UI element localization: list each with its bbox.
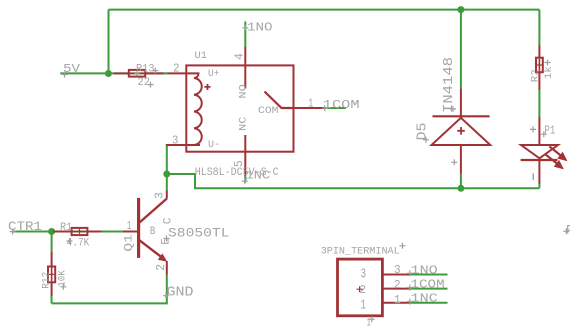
resistor R13 body — [129, 70, 145, 77]
wire top rail — [109, 9, 540, 11]
wire diode bottom green segment — [460, 174, 462, 189]
svg-text:IN4148: IN4148 — [442, 57, 457, 113]
svg-text:1: 1 — [394, 294, 401, 307]
wire R2 top green segment — [538, 10, 540, 46]
svg-text:2: 2 — [155, 264, 168, 271]
4.7K cross — [67, 238, 73, 244]
svg-text:1NO: 1NO — [411, 264, 438, 277]
relay U1 pin 5 NC vertical — [244, 135, 246, 176]
wire R12 top green segment — [51, 232, 53, 253]
node junction coil low side — [163, 171, 170, 178]
P1 cross — [541, 131, 547, 137]
transistor Q1 collector diagonal — [140, 199, 167, 223]
svg-text:2: 2 — [394, 279, 401, 292]
svg-text:1NO: 1NO — [247, 22, 273, 35]
svg-text:3PIN_TERMINAL: 3PIN_TERMINAL — [321, 245, 400, 257]
svg-text:10K: 10K — [57, 270, 69, 287]
transistor Q1 base bar — [137, 198, 140, 258]
svg-text:NC: NC — [238, 117, 250, 131]
diode D5 cathode bar — [433, 115, 490, 117]
resistor R2 pin bottom — [538, 72, 540, 90]
LED P1 cathode bar — [521, 159, 558, 161]
relay U1 coil plus mark — [204, 84, 210, 90]
transistor Q1 emitter pin — [166, 261, 168, 275]
svg-text:4: 4 — [233, 53, 246, 60]
svg-text:1: 1 — [127, 220, 132, 233]
svg-text:22: 22 — [138, 77, 151, 89]
1NO terminal cross — [407, 270, 413, 276]
GND cross — [163, 293, 169, 299]
resistor R12 body — [48, 267, 55, 283]
LED plus marker — [530, 126, 536, 132]
wire pin5 stub 1NC — [244, 176, 246, 183]
diode D5 pin top — [460, 88, 462, 118]
CTR1 cross — [10, 229, 16, 235]
terminal pin 1 — [382, 302, 409, 304]
resistor R13 pin right — [145, 72, 163, 74]
svg-text:GND: GND — [167, 286, 194, 301]
svg-text:1COM: 1COM — [323, 99, 360, 112]
node junction 5V row — [105, 70, 112, 77]
wire collector green segment — [166, 174, 168, 191]
svg-text:S8050TL: S8050TL — [168, 226, 230, 241]
svg-text:U+: U+ — [208, 68, 220, 80]
diode D5 pin bottom — [460, 145, 462, 174]
svg-text:NO: NO — [238, 84, 250, 98]
svg-text:1NC: 1NC — [411, 293, 438, 306]
svg-text:1: 1 — [361, 299, 367, 314]
LED P1 arrow 1 — [550, 147, 568, 162]
resistor R2 pin top — [538, 45, 540, 58]
node 5V origin cross — [62, 72, 68, 78]
svg-text:1: 1 — [308, 97, 313, 110]
relay U1 coil — [186, 73, 201, 145]
node junction CTR1 — [48, 228, 55, 235]
relay U1 pin 1 COM — [282, 107, 325, 109]
wire tiny green gap before relay pin2 — [163, 72, 168, 74]
terminal block box — [338, 259, 383, 316]
wire 5V row — [60, 72, 168, 74]
relay U1 box — [186, 65, 293, 151]
E origin cross — [164, 236, 170, 242]
resistor R1 body — [72, 228, 88, 235]
wire R2 to LED green segment — [538, 90, 540, 117]
1NC cross — [242, 178, 248, 184]
svg-text:HLS8L-DC5V-S-C: HLS8L-DC5V-S-C — [195, 167, 279, 179]
diode anode plus marker — [451, 159, 457, 165]
wire net stub pin4 1NO — [244, 22, 246, 48]
3PIN_TERMINAL cross — [400, 243, 406, 249]
svg-text:2: 2 — [360, 283, 367, 297]
svg-text:D5: D5 — [416, 123, 431, 141]
22 cross — [148, 82, 154, 88]
resistor R1 pin right — [87, 231, 101, 233]
relay U1 switch arm — [265, 92, 294, 109]
resistor R12 pin bottom — [51, 282, 53, 296]
node junction at diode bottom — [457, 185, 464, 192]
wire terminal net 1NO — [410, 274, 448, 276]
svg-text:3: 3 — [394, 264, 401, 277]
svg-text:C: C — [162, 217, 174, 224]
svg-text:3: 3 — [172, 135, 179, 148]
svg-text:R2: R2 — [529, 69, 541, 82]
svg-text:B: B — [150, 226, 156, 238]
svg-text:2: 2 — [173, 63, 180, 76]
terminal pin 2 — [382, 288, 409, 290]
LED P1 arrow 2 — [545, 154, 564, 169]
1NC terminal cross — [407, 299, 413, 305]
wire terminal net 1NC — [410, 302, 448, 304]
relay U1 pin 4 NO vertical — [244, 47, 246, 89]
LED P1 pin bottom — [538, 158, 540, 184]
svg-text:R13: R13 — [136, 64, 155, 76]
LED P1 pin top — [538, 117, 540, 146]
wire diode top green segment — [460, 10, 462, 89]
transistor Q1 base pin — [123, 231, 137, 233]
svg-text:U1: U1 — [195, 50, 208, 62]
R13 name cross — [152, 68, 158, 74]
wire GND bottom rail — [52, 275, 167, 304]
svg-text:Q1: Q1 — [124, 234, 136, 252]
10K cross — [60, 284, 66, 290]
transistor Q1 emitter arrowhead — [158, 253, 167, 261]
svg-text:U-: U- — [208, 139, 220, 151]
partial P cross — [563, 228, 569, 234]
terminal below cross — [369, 316, 375, 322]
diode D5 triangle — [432, 118, 491, 145]
IN4148 origin cross — [450, 106, 456, 112]
svg-text:COM: COM — [258, 105, 279, 117]
svg-text:3: 3 — [153, 192, 166, 199]
diode D5 plus mark — [457, 127, 465, 135]
svg-text:1COM: 1COM — [411, 279, 445, 292]
wire CTR1 row — [13, 231, 126, 233]
D5 name origin cross — [423, 137, 429, 143]
wire LED bottom green segment — [538, 184, 540, 188]
wire relay pin3 corner to junction — [166, 146, 168, 174]
1k cross — [545, 60, 551, 66]
wire R12 bottom green segment — [51, 296, 53, 304]
svg-text:P1: P1 — [544, 125, 555, 138]
resistor R12 pin top — [51, 252, 53, 267]
resistor R13 pin left — [114, 72, 129, 74]
wire terminal net 1COM — [410, 288, 448, 290]
transistor Q1 collector pin — [166, 191, 168, 199]
svg-text:4.7K: 4.7K — [67, 238, 90, 250]
1NO cross — [242, 25, 248, 31]
wire junction to bottom rail — [167, 174, 540, 188]
transistor Q1 emitter diagonal — [140, 240, 166, 259]
svg-text:1k: 1k — [543, 66, 555, 79]
resistor R1 pin left — [53, 231, 72, 233]
terminal pin 3 — [382, 274, 409, 276]
wire left drop from top rail to 5V row — [108, 10, 110, 74]
svg-text:R1: R1 — [60, 222, 72, 234]
LED minus marker rotated — [532, 174, 534, 181]
node junction top rail diode — [457, 6, 464, 13]
svg-text:3: 3 — [361, 268, 367, 283]
svg-text:R12: R12 — [41, 272, 53, 289]
resistor R2 body — [536, 58, 543, 72]
1COM cross — [322, 105, 328, 111]
1COM terminal cross — [407, 285, 413, 291]
terminal origin cross red — [357, 286, 363, 292]
relay U1 pin 2 — [168, 72, 187, 74]
wire COM stub 1COM — [325, 107, 346, 109]
LED P1 triangle — [521, 145, 558, 158]
relay U1 pin 3 — [166, 144, 187, 146]
